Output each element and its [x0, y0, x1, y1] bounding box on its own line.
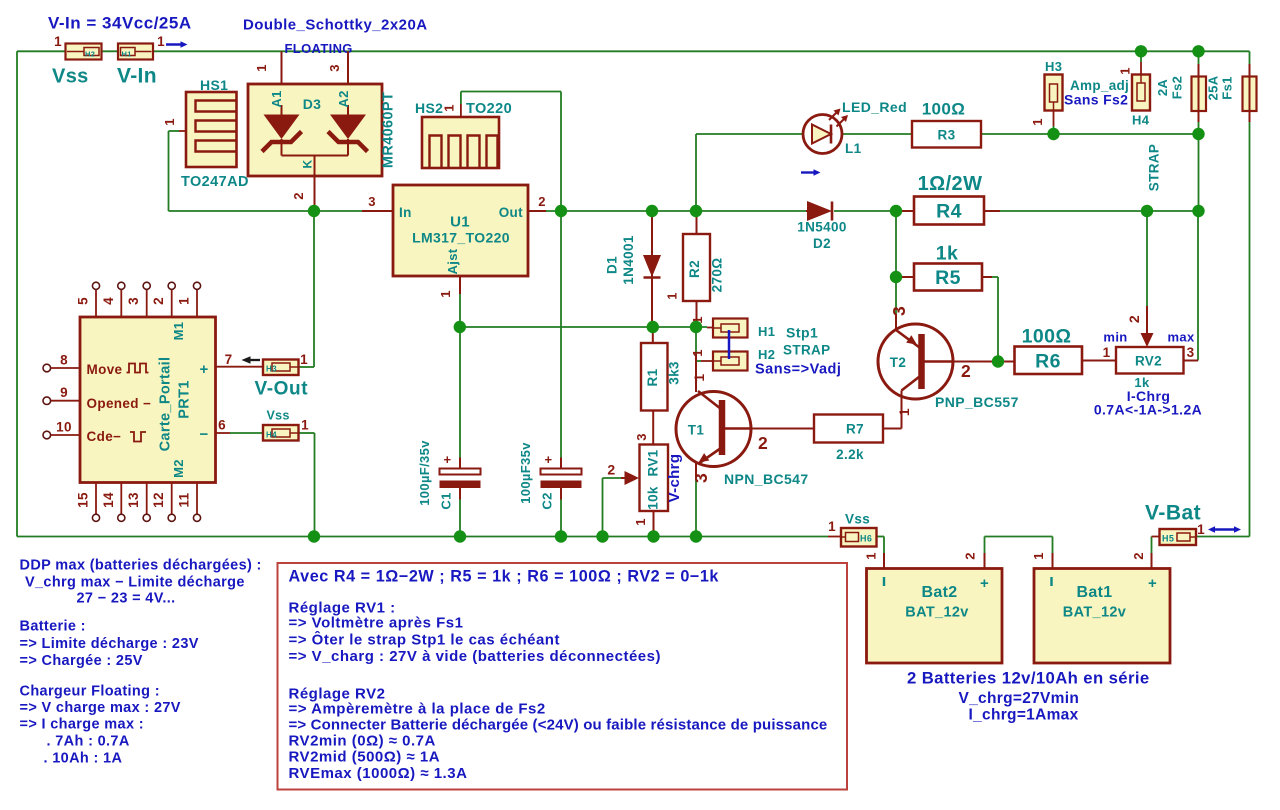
svg-text:. 7Ah : 0.7A: . 7Ah : 0.7A — [47, 734, 130, 750]
svg-text:M1: M1 — [171, 322, 186, 341]
svg-text:25A: 25A — [1206, 75, 1221, 100]
svg-text:1: 1 — [157, 34, 165, 49]
svg-text:0.7A<-1A->1.2A: 0.7A<-1A->1.2A — [1094, 402, 1202, 418]
svg-text:Opened −: Opened − — [87, 396, 152, 411]
svg-text:Carte_Portail: Carte_Portail — [158, 357, 174, 452]
svg-text:RVEmax (1000Ω) ≈ 1.3A: RVEmax (1000Ω) ≈ 1.3A — [289, 765, 468, 782]
svg-text:1: 1 — [177, 297, 192, 305]
svg-text:1: 1 — [1118, 67, 1133, 75]
svg-text:2 Batteries 12v/10Ah en série: 2 Batteries 12v/10Ah en série — [907, 669, 1150, 688]
svg-text:HS1: HS1 — [200, 77, 228, 93]
svg-text:1N4001: 1N4001 — [621, 235, 636, 285]
svg-text:FLOATING: FLOATING — [285, 41, 353, 56]
svg-text:100Ω: 100Ω — [922, 100, 966, 119]
svg-text:D3: D3 — [303, 96, 322, 112]
svg-text:13: 13 — [126, 492, 141, 508]
svg-text:R5: R5 — [935, 267, 961, 289]
svg-text:10k: 10k — [646, 486, 661, 510]
svg-text:In: In — [399, 205, 412, 220]
svg-text:3: 3 — [327, 64, 342, 72]
svg-text:T1: T1 — [688, 423, 705, 438]
svg-text:+: + — [980, 575, 989, 592]
svg-text:D2: D2 — [813, 236, 831, 251]
svg-text:Out: Out — [499, 205, 523, 220]
svg-text:STRAP: STRAP — [1147, 144, 1162, 192]
svg-text:TO220: TO220 — [466, 101, 512, 117]
svg-text:1: 1 — [896, 408, 912, 416]
svg-text:Double_Schottky_2x20A: Double_Schottky_2x20A — [243, 17, 428, 34]
svg-text:Chargeur Floating :: Chargeur Floating : — [20, 684, 160, 700]
svg-text:I_chrg=1Amax: I_chrg=1Amax — [969, 707, 1079, 724]
svg-text:2: 2 — [538, 194, 546, 209]
svg-text:H4: H4 — [1132, 113, 1150, 128]
svg-text:7: 7 — [225, 352, 233, 367]
svg-text:H2: H2 — [758, 347, 775, 362]
svg-text:=> V_charg : 27V à vide (batte: => V_charg : 27V à vide (batteries décon… — [289, 648, 662, 665]
svg-text:1: 1 — [301, 418, 309, 433]
svg-text:Fs1: Fs1 — [1220, 76, 1235, 99]
svg-text:H6: H6 — [860, 534, 872, 544]
svg-text:1: 1 — [162, 118, 177, 126]
svg-text:H1: H1 — [122, 50, 132, 59]
svg-text:9: 9 — [60, 385, 68, 400]
svg-text:1: 1 — [438, 290, 453, 298]
svg-text:. 10Ah : 1A: . 10Ah : 1A — [44, 751, 123, 767]
svg-text:RV2min (0Ω) ≈ 0.7A: RV2min (0Ω) ≈ 0.7A — [289, 733, 436, 750]
svg-text:H3: H3 — [266, 364, 277, 373]
svg-text:=> Connecter Batterie déchargé: => Connecter Batterie déchargée (<24V) o… — [289, 717, 828, 734]
svg-text:6: 6 — [218, 418, 226, 433]
svg-text:2: 2 — [758, 433, 768, 453]
svg-text:Cde−: Cde− — [87, 429, 122, 444]
svg-text:2: 2 — [291, 192, 306, 200]
svg-text:−: − — [199, 426, 208, 443]
svg-text:V-chrg: V-chrg — [666, 454, 683, 503]
svg-text:H3: H3 — [1045, 59, 1062, 74]
svg-text:Ajst: Ajst — [445, 248, 460, 274]
svg-text:Avec R4 = 1Ω−2W ; R5 = 1k ; R6: Avec R4 = 1Ω−2W ; R5 = 1k ; R6 = 100Ω ; … — [289, 568, 720, 586]
svg-text:R6: R6 — [1035, 351, 1061, 373]
svg-text:4: 4 — [101, 297, 116, 305]
svg-text:2A: 2A — [1155, 79, 1170, 97]
svg-text:U1: U1 — [450, 214, 470, 231]
svg-text:max: max — [1167, 330, 1194, 345]
svg-text:=> Voltmètre après Fs1: => Voltmètre après Fs1 — [289, 615, 464, 632]
svg-text:H2: H2 — [85, 50, 95, 59]
svg-text:10: 10 — [56, 420, 72, 435]
svg-text:=> Ampèremètre à la place de F: => Ampèremètre à la place de Fs2 — [289, 701, 546, 718]
svg-text:Move: Move — [87, 362, 123, 377]
svg-text:1: 1 — [300, 352, 308, 367]
svg-text:D1: D1 — [605, 256, 620, 274]
svg-text:2: 2 — [151, 297, 166, 305]
svg-text:3: 3 — [1187, 345, 1195, 360]
svg-text:C2: C2 — [540, 492, 555, 509]
svg-text:LM317_TO220: LM317_TO220 — [412, 230, 510, 246]
svg-text:Fs2: Fs2 — [1170, 76, 1185, 99]
svg-text:R2: R2 — [687, 260, 702, 278]
svg-text:=> Ôter le strap Stp1 le cas é: => Ôter le strap Stp1 le cas échéant — [289, 631, 560, 649]
svg-text:V-Bat: V-Bat — [1145, 502, 1201, 525]
svg-text:H5: H5 — [1162, 534, 1174, 544]
svg-text:Vss: Vss — [52, 66, 89, 88]
svg-text:A2: A2 — [336, 90, 351, 107]
svg-text:Sans=>Vadj: Sans=>Vadj — [755, 362, 841, 378]
svg-text:3: 3 — [889, 306, 909, 316]
svg-text:=> I charge max :: => I charge max : — [20, 717, 144, 733]
svg-text:2.2k: 2.2k — [836, 447, 864, 462]
svg-text:+: + — [1148, 575, 1157, 592]
svg-text:2: 2 — [1126, 315, 1142, 323]
svg-text:H1: H1 — [758, 324, 775, 339]
svg-text:100Ω: 100Ω — [1022, 326, 1072, 348]
svg-text:T2: T2 — [890, 355, 906, 370]
svg-text:Stp1: Stp1 — [786, 325, 818, 341]
svg-text:5: 5 — [76, 297, 91, 305]
svg-text:V_chrg max − Limite décharge: V_chrg max − Limite décharge — [25, 575, 245, 591]
svg-text:100µF35v: 100µF35v — [518, 442, 533, 504]
svg-text:TO247AD: TO247AD — [181, 174, 249, 190]
svg-text:RV1: RV1 — [646, 449, 661, 476]
svg-text:1: 1 — [828, 519, 836, 534]
svg-text:3: 3 — [691, 473, 711, 483]
svg-text:12: 12 — [151, 492, 166, 508]
svg-text:+: + — [545, 452, 553, 467]
svg-text:1: 1 — [1030, 118, 1045, 126]
svg-text:PRT1: PRT1 — [177, 380, 193, 418]
svg-text:V-In = 34Vcc/25A: V-In = 34Vcc/25A — [48, 14, 192, 33]
svg-text:+: + — [199, 361, 208, 378]
svg-text:1N5400: 1N5400 — [797, 220, 846, 235]
svg-text:V-In: V-In — [117, 65, 157, 88]
svg-text:R1: R1 — [645, 368, 660, 386]
svg-text:100µF/35v: 100µF/35v — [417, 440, 432, 506]
svg-text:1: 1 — [691, 373, 707, 381]
svg-text:2: 2 — [1131, 552, 1146, 560]
svg-text:1: 1 — [54, 34, 62, 49]
svg-text:Bat2: Bat2 — [921, 584, 957, 601]
svg-text:M2: M2 — [171, 459, 186, 478]
svg-text:PNP_BC557: PNP_BC557 — [935, 394, 1019, 410]
svg-text:3k3: 3k3 — [667, 361, 682, 385]
svg-text:RV2: RV2 — [1135, 354, 1162, 369]
svg-text:1Ω/2W: 1Ω/2W — [918, 173, 983, 195]
svg-text:1: 1 — [633, 518, 648, 526]
svg-text:8: 8 — [60, 353, 68, 368]
svg-text:=> Limite décharge : 23V: => Limite décharge : 23V — [20, 636, 199, 652]
svg-text:R7: R7 — [846, 422, 864, 437]
svg-text:2: 2 — [607, 462, 615, 478]
svg-text:2: 2 — [963, 552, 978, 560]
svg-text:Vss: Vss — [267, 409, 290, 423]
svg-text:1: 1 — [442, 104, 457, 112]
svg-text:LED_Red: LED_Red — [842, 99, 907, 115]
svg-text:1: 1 — [864, 552, 879, 560]
svg-text:K: K — [301, 159, 315, 168]
svg-text:+: + — [444, 452, 452, 467]
svg-text:1: 1 — [1103, 345, 1111, 360]
svg-text:Batterie :: Batterie : — [20, 619, 86, 635]
svg-text:1: 1 — [690, 349, 705, 357]
svg-text:Vss: Vss — [845, 512, 870, 527]
svg-text:3: 3 — [634, 433, 649, 441]
svg-text:V_chrg=27Vmin: V_chrg=27Vmin — [959, 690, 1080, 707]
svg-text:A1: A1 — [269, 90, 284, 107]
svg-text:BAT_12v: BAT_12v — [1063, 605, 1126, 621]
svg-text:BAT_12v: BAT_12v — [905, 605, 968, 621]
svg-text:1: 1 — [666, 292, 680, 299]
svg-text:3: 3 — [126, 297, 141, 305]
svg-text:H4: H4 — [266, 430, 277, 439]
svg-text:270Ω: 270Ω — [710, 258, 725, 293]
svg-text:R4: R4 — [936, 201, 962, 223]
svg-text:1: 1 — [254, 64, 269, 72]
svg-text:=> V charge max : 27V: => V charge max : 27V — [20, 700, 181, 716]
svg-text:1k: 1k — [936, 243, 958, 265]
svg-text:14: 14 — [101, 492, 116, 508]
svg-text:3: 3 — [368, 194, 376, 209]
svg-text:R3: R3 — [938, 128, 956, 143]
svg-text:HS2: HS2 — [415, 100, 443, 116]
svg-text:DDP max (batteries déchargées): DDP max (batteries déchargées) : — [20, 558, 262, 574]
svg-text:min: min — [1103, 330, 1127, 345]
svg-text:NPN_BC547: NPN_BC547 — [724, 471, 809, 487]
svg-text:15: 15 — [76, 492, 91, 508]
svg-text:C1: C1 — [439, 492, 454, 509]
svg-text:=> Chargée : 25V: => Chargée : 25V — [20, 653, 143, 669]
svg-text:V-Out: V-Out — [255, 379, 309, 400]
svg-text:L1: L1 — [845, 141, 862, 156]
svg-text:11: 11 — [177, 492, 192, 507]
svg-text:MR4060PT: MR4060PT — [381, 92, 397, 168]
svg-text:Bat1: Bat1 — [1076, 584, 1112, 601]
svg-text:RV2mid (500Ω) ≈ 1A: RV2mid (500Ω) ≈ 1A — [289, 749, 441, 766]
svg-text:STRAP: STRAP — [783, 343, 831, 358]
svg-text:1: 1 — [1031, 552, 1046, 560]
svg-text:27 − 23 = 4V...: 27 − 23 = 4V... — [77, 591, 176, 607]
svg-text:Sans Fs2: Sans Fs2 — [1064, 92, 1128, 108]
svg-text:2: 2 — [961, 361, 971, 381]
